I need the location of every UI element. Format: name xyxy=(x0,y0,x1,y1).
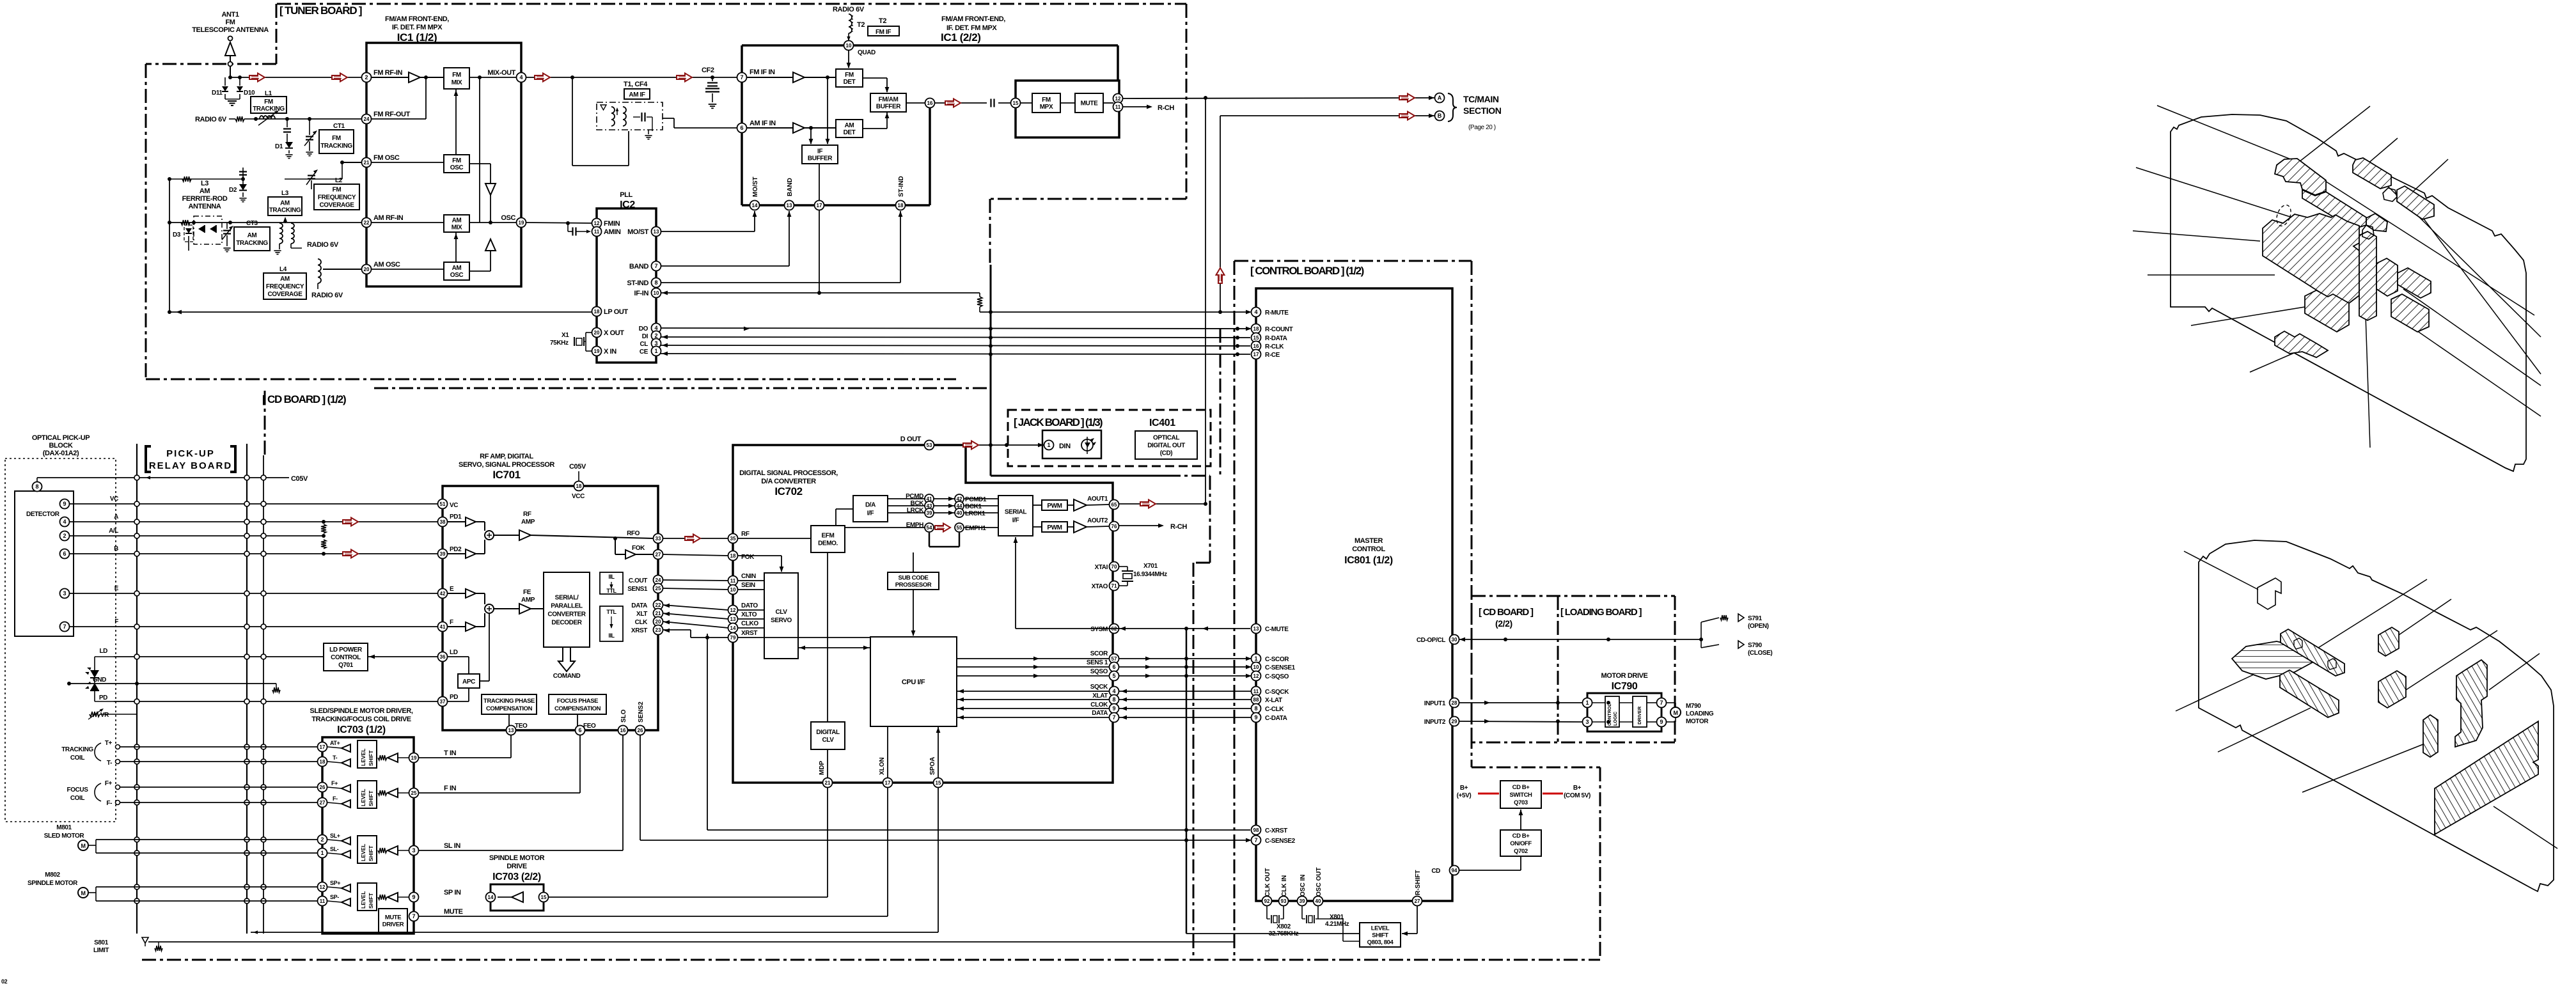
pin 54 EMPH xyxy=(925,523,934,532)
svg-text:8: 8 xyxy=(654,279,657,286)
svg-text:E: E xyxy=(114,585,119,592)
antenna ANT1 label xyxy=(192,11,269,34)
svg-text:13: 13 xyxy=(654,229,659,235)
svg-text:18: 18 xyxy=(898,203,904,208)
page number xyxy=(1,978,8,985)
hatched part u-H right pair xyxy=(2398,268,2431,298)
wire XLAT 2 xyxy=(1119,699,1252,700)
laser diode symbols xyxy=(85,657,114,701)
red wire B+ left xyxy=(1478,793,1499,795)
svg-text:IC790: IC790 xyxy=(1612,681,1638,692)
optical pick-up block label xyxy=(32,434,90,457)
svg-text:MO/ST: MO/ST xyxy=(627,228,649,236)
cd board outline top xyxy=(374,387,990,389)
svg-text:2: 2 xyxy=(320,836,324,843)
svg-text:SHIFT: SHIFT xyxy=(368,790,374,806)
svg-text:7: 7 xyxy=(412,913,415,919)
FM/AM BUFFER box xyxy=(870,93,906,112)
wire FM RF-OUT internal xyxy=(372,77,426,119)
svg-text:X IN: X IN xyxy=(604,348,617,356)
cd board 2/2 + loading board outline xyxy=(1472,596,1675,742)
svg-text:CD B+: CD B+ xyxy=(1512,833,1530,840)
hatched part u-D right bar xyxy=(2397,186,2434,219)
wire R-CH label stub xyxy=(1122,106,1151,107)
wire C-XRST long xyxy=(707,829,1250,831)
wire SYSM xyxy=(1016,628,1119,629)
pin 12 DATO xyxy=(664,602,758,615)
CT1 FM TRACKING label box xyxy=(319,123,354,153)
R-CH label 2 xyxy=(1170,523,1187,531)
arrow DIN xyxy=(1038,443,1044,448)
pin 2 FM RF-IN xyxy=(362,73,372,82)
svg-text:LEVEL: LEVEL xyxy=(1371,925,1390,932)
svg-text:27: 27 xyxy=(1415,898,1420,904)
leader line l5 xyxy=(2489,653,2540,690)
svg-text:ANTENNA: ANTENNA xyxy=(189,203,221,210)
M790 label xyxy=(1686,703,1714,725)
svg-text:RADIO 6V: RADIO 6V xyxy=(307,241,339,249)
svg-text:FM: FM xyxy=(452,157,461,164)
leader line u15 xyxy=(2364,258,2370,448)
red arrow RF xyxy=(685,535,700,543)
junction AOUT1 top xyxy=(1204,96,1207,100)
svg-text:VC: VC xyxy=(110,496,118,503)
tuner board title xyxy=(279,4,362,17)
pin 18 LP OUT xyxy=(592,307,602,317)
red arrow A xyxy=(343,518,358,526)
pin 4 R-MUTE xyxy=(1246,308,1289,317)
svg-text:27: 27 xyxy=(320,800,326,806)
wire EMPH xyxy=(845,527,925,528)
pin 25 SENS1 xyxy=(654,584,663,593)
svg-text:12: 12 xyxy=(594,221,600,226)
wire C-SENSE2 long xyxy=(640,840,1250,841)
pin 29 INPUT2 xyxy=(1424,717,1459,726)
svg-text:TELESCOPIC ANTENNA: TELESCOPIC ANTENNA xyxy=(192,26,269,34)
svg-text:MUTE: MUTE xyxy=(385,914,401,921)
svg-text:Q703: Q703 xyxy=(1514,799,1528,806)
red arrow before CF2 xyxy=(677,74,692,82)
svg-text:LP OUT: LP OUT xyxy=(604,308,628,316)
buffer triangle down xyxy=(485,184,496,195)
svg-text:MIX-OUT: MIX-OUT xyxy=(487,69,515,77)
PWM box 1 xyxy=(1042,500,1067,510)
wire S801 LIMIT xyxy=(148,941,1234,943)
arrow R-CLK xyxy=(662,343,668,348)
svg-text:17: 17 xyxy=(320,744,326,750)
svg-text:76: 76 xyxy=(1111,524,1117,529)
wire SPOA down xyxy=(938,787,939,932)
hatched part u-B mid bar xyxy=(2302,190,2366,229)
svg-text:IF: IF xyxy=(817,148,822,155)
wire SP+ xyxy=(96,886,318,888)
svg-text:25: 25 xyxy=(656,586,661,591)
out triangle 1 xyxy=(1074,499,1087,511)
CPU I/F box xyxy=(870,637,957,726)
L3 AM FERRITE-ROD ANTENNA label xyxy=(182,180,228,210)
svg-text:13: 13 xyxy=(508,728,514,733)
svg-text:X802: X802 xyxy=(1276,923,1291,930)
svg-text:16: 16 xyxy=(620,728,626,733)
pin 12 C-SQSO xyxy=(1246,671,1289,681)
hatched part u-G right mid xyxy=(2376,258,2398,296)
wire DATO xyxy=(663,605,728,610)
pin 15 xyxy=(1011,98,1021,108)
IC2 title xyxy=(620,191,635,210)
svg-text:15: 15 xyxy=(1253,335,1259,341)
IIL TTL box up xyxy=(600,572,623,594)
wire CLOK 2 xyxy=(1119,708,1252,709)
svg-text:RF: RF xyxy=(741,531,750,538)
wire B vertical xyxy=(1220,116,1221,312)
svg-text:BAND: BAND xyxy=(787,178,794,196)
svg-text:15: 15 xyxy=(1013,100,1019,106)
svg-text:C-XRST: C-XRST xyxy=(1265,827,1287,834)
FE AMP label xyxy=(521,589,535,604)
hatched part l-B diamond xyxy=(2232,641,2318,679)
SUB CODE PROSSESOR box xyxy=(888,572,939,590)
svg-text:FM: FM xyxy=(1042,97,1051,104)
svg-text:IC801 (1/2): IC801 (1/2) xyxy=(1344,555,1393,566)
svg-text:M: M xyxy=(81,890,85,896)
svg-text:XTAI: XTAI xyxy=(1095,564,1108,571)
svg-text:D11: D11 xyxy=(212,90,223,97)
jack board outline xyxy=(1008,410,1211,466)
wire FM DET to buffer xyxy=(863,78,887,92)
svg-text:FOCUS: FOCUS xyxy=(67,786,88,794)
CT3 AM TRACKING label box xyxy=(234,220,270,251)
pin 3 CL xyxy=(652,339,661,348)
wire SQCK 2 xyxy=(1119,691,1252,692)
wire serial in xyxy=(964,499,998,528)
C05V label xyxy=(291,475,308,483)
capacitor D2 branch xyxy=(239,162,247,184)
svg-text:7: 7 xyxy=(1660,700,1663,706)
svg-text:38: 38 xyxy=(440,519,446,525)
svg-text:3: 3 xyxy=(1585,719,1589,725)
svg-text:I/F: I/F xyxy=(1012,517,1019,524)
svg-text:DIGITAL OUT: DIGITAL OUT xyxy=(1147,442,1185,450)
crystal X802 xyxy=(1267,905,1299,937)
svg-text:M801: M801 xyxy=(56,824,72,831)
mechanical panel outline (upper) xyxy=(2171,114,2526,471)
svg-text:X1: X1 xyxy=(562,332,569,339)
svg-text:CLV: CLV xyxy=(775,609,787,616)
pin 12 FMIN xyxy=(592,219,602,228)
pin 42 PCMD1 xyxy=(955,494,964,503)
svg-text:94: 94 xyxy=(1452,868,1457,873)
arrows cpu out xyxy=(1033,657,1151,678)
pin 17 xyxy=(815,201,824,210)
pin 21 MDP xyxy=(819,760,833,787)
AM DET box xyxy=(836,120,863,137)
wire IF buffer to pin 17 xyxy=(819,164,820,295)
svg-text:7: 7 xyxy=(740,74,743,81)
wire A xyxy=(69,521,438,522)
DIGITAL CLV box xyxy=(811,722,845,749)
wire PD internal xyxy=(448,688,469,701)
pin 4 SQCK xyxy=(1110,687,1119,696)
svg-text:FOK: FOK xyxy=(741,554,755,561)
svg-text:IC701: IC701 xyxy=(492,469,520,481)
pick-up relay board outline right xyxy=(246,444,247,934)
red arrow before A xyxy=(1399,94,1415,102)
svg-text:(COM 5V): (COM 5V) xyxy=(1564,792,1590,799)
svg-text:DET: DET xyxy=(844,79,856,86)
FM MIX box xyxy=(444,68,469,89)
capacitor CF2 xyxy=(702,67,719,108)
leader line u6 xyxy=(2133,231,2260,241)
svg-text:(CLOSE): (CLOSE) xyxy=(1748,650,1772,657)
pin 94 CD xyxy=(1431,866,1459,875)
svg-text:PD2: PD2 xyxy=(450,546,462,553)
hatched part u-C top-right bar xyxy=(2353,158,2391,189)
pin 6 AM IF IN xyxy=(737,123,747,133)
amp triangle FM IF xyxy=(747,72,836,82)
IC703 right labels xyxy=(444,749,463,916)
svg-text:SUB CODE: SUB CODE xyxy=(899,574,929,581)
svg-text:6: 6 xyxy=(63,551,66,557)
svg-text:DRIVER: DRIVER xyxy=(382,921,404,928)
IC703 input triangles xyxy=(378,753,409,762)
leader line u14 xyxy=(2394,315,2541,416)
M790 LOADING MOTOR xyxy=(1666,703,1681,722)
terminal T- xyxy=(116,760,120,764)
svg-text:65: 65 xyxy=(1111,502,1117,508)
T2 FM IF label box xyxy=(868,17,899,36)
svg-text:27: 27 xyxy=(656,552,661,558)
svg-text:SHIFT: SHIFT xyxy=(368,845,374,861)
FOCUS COIL label xyxy=(67,780,112,807)
resistor on RADIO 6V line xyxy=(229,116,255,121)
svg-text:A: A xyxy=(114,513,118,520)
wire SP- xyxy=(96,900,318,902)
wire F- xyxy=(120,802,318,803)
svg-text:R-CLK: R-CLK xyxy=(1265,343,1284,350)
svg-text:CLK IN: CLK IN xyxy=(1281,875,1288,896)
red arrow on antenna wire 2 xyxy=(332,74,347,82)
svg-text:R-CH: R-CH xyxy=(1158,104,1174,112)
svg-text:15: 15 xyxy=(541,895,547,900)
wire R-SHIFT down xyxy=(1417,905,1418,934)
amp triangle AM IF xyxy=(747,123,836,133)
svg-text:16: 16 xyxy=(927,100,933,106)
wire CNIN xyxy=(663,580,728,581)
svg-text:55: 55 xyxy=(957,525,962,531)
svg-text:26: 26 xyxy=(320,785,326,790)
pin 11 AMIN xyxy=(592,227,602,237)
red arrow before B xyxy=(1399,112,1415,120)
leader line l7 xyxy=(2218,708,2311,752)
pin 1 IC790 xyxy=(1583,698,1592,708)
pin 13b xyxy=(785,201,794,210)
pin 93 CLK IN xyxy=(1279,875,1289,906)
out triangle 2 xyxy=(1074,521,1087,533)
leader line l4 xyxy=(2406,630,2497,690)
pin 8 XLAT xyxy=(1110,695,1119,705)
wire T- xyxy=(120,761,318,762)
svg-text:IIL: IIL xyxy=(608,632,615,639)
svg-text:FERRITE-ROD: FERRITE-ROD xyxy=(182,195,228,203)
arrow Q702 to Q703 xyxy=(1519,810,1523,830)
pin 13 C-MUTE xyxy=(1252,624,1289,634)
svg-text:92: 92 xyxy=(1264,898,1270,904)
svg-text:41: 41 xyxy=(440,624,446,630)
svg-text:TRACKING: TRACKING xyxy=(269,207,301,214)
svg-text:AM: AM xyxy=(452,217,462,224)
pin 43 BCK xyxy=(925,501,934,510)
diode D1 xyxy=(275,142,293,159)
svg-text:9: 9 xyxy=(63,501,66,507)
svg-text:LEVEL: LEVEL xyxy=(360,749,366,766)
svg-text:36: 36 xyxy=(440,654,446,660)
SERIAL PARALLEL CONVERTER DECODER box xyxy=(544,572,590,647)
pin 39 LRCK xyxy=(925,508,934,517)
svg-text:MOTOR DRIVE: MOTOR DRIVE xyxy=(1601,672,1647,680)
arrow IF-IN xyxy=(662,291,668,295)
svg-text:LD POWER: LD POWER xyxy=(329,646,363,653)
wire RF to EFM xyxy=(737,538,811,539)
node A circle xyxy=(1429,93,1445,103)
svg-text:R-CE: R-CE xyxy=(1265,352,1280,359)
svg-text:M790: M790 xyxy=(1686,703,1701,710)
svg-text:T IN: T IN xyxy=(444,749,457,757)
wire C05V xyxy=(37,477,289,478)
small clip u-D2 xyxy=(2383,188,2397,201)
leader line u3 xyxy=(2367,138,2398,164)
pin 70 XTAI xyxy=(1095,562,1119,572)
svg-text:I/F: I/F xyxy=(867,510,874,517)
svg-text:[ CD BOARD ] (1/2): [ CD BOARD ] (1/2) xyxy=(262,393,346,405)
IC IC2 outline xyxy=(597,208,656,363)
svg-text:AMIN: AMIN xyxy=(604,228,621,236)
pin 10 C-SENSE1 xyxy=(1246,662,1296,672)
pin 12 out xyxy=(1113,94,1123,104)
pin 11 C-SQCK xyxy=(1252,687,1290,696)
hatched part l-D lower bar xyxy=(2280,670,2339,717)
svg-text:7: 7 xyxy=(654,263,657,269)
wire MO/ST xyxy=(661,211,755,231)
svg-text:6: 6 xyxy=(740,125,743,131)
svg-text:EMPH1: EMPH1 xyxy=(965,525,986,532)
svg-text:CD: CD xyxy=(1431,868,1440,875)
svg-text:SYSM: SYSM xyxy=(1090,626,1108,633)
FM MPX box xyxy=(1032,93,1060,113)
junction FM RF-OUT xyxy=(254,117,311,121)
junction T1 tap xyxy=(570,75,714,79)
svg-text:CD-OP/CL: CD-OP/CL xyxy=(1417,637,1445,644)
CONTROL LOGIC box xyxy=(1605,696,1619,727)
svg-text:X OUT: X OUT xyxy=(604,329,624,337)
svg-text:BAND: BAND xyxy=(629,263,649,270)
wire R-DATA xyxy=(661,337,1250,338)
wire to IF buffer 1 xyxy=(810,128,812,144)
svg-text:X-LAT: X-LAT xyxy=(1265,697,1282,704)
TTL IIL box down xyxy=(600,606,623,641)
leader line l8 xyxy=(2302,744,2423,792)
junction D OUT xyxy=(989,443,1009,447)
APC box xyxy=(458,674,480,688)
resistor A/L to B xyxy=(321,540,326,556)
IC703 2/2 title xyxy=(489,854,545,882)
trimmer CT1 xyxy=(304,119,317,156)
svg-text:ST-IND: ST-IND xyxy=(627,279,648,287)
pin 7 BAND xyxy=(652,262,661,271)
svg-text:RELAY BOARD: RELAY BOARD xyxy=(149,460,232,471)
svg-text:2: 2 xyxy=(365,74,368,81)
pin 11 out xyxy=(1113,102,1123,112)
svg-text:26: 26 xyxy=(638,728,643,733)
svg-text:RADIO 6V: RADIO 6V xyxy=(833,6,865,13)
svg-text:SENS1: SENS1 xyxy=(627,586,648,593)
coil L4 xyxy=(318,259,323,289)
wire LD xyxy=(114,656,324,657)
svg-text:3: 3 xyxy=(412,847,415,854)
pin 15 xyxy=(539,893,549,902)
svg-text:(+5V): (+5V) xyxy=(1457,792,1472,799)
svg-text:D/A CONVERTER: D/A CONVERTER xyxy=(761,478,816,485)
svg-text:SP+: SP+ xyxy=(330,880,340,886)
svg-text:D1: D1 xyxy=(275,143,283,150)
svg-text:C-SENSE1: C-SENSE1 xyxy=(1265,664,1296,671)
svg-text:COIL: COIL xyxy=(70,795,85,802)
svg-text:CL: CL xyxy=(640,341,648,348)
svg-text:C-SENSE2: C-SENSE2 xyxy=(1265,838,1296,845)
svg-text:F: F xyxy=(450,619,453,626)
svg-text:SERIAL/: SERIAL/ xyxy=(555,595,579,602)
svg-text:DECODER: DECODER xyxy=(551,620,582,627)
svg-text:SQSO: SQSO xyxy=(1090,668,1108,675)
svg-text:AM OSC: AM OSC xyxy=(373,261,400,269)
svg-text:LEVEL: LEVEL xyxy=(360,891,366,909)
RF AMP label xyxy=(521,511,535,526)
svg-text:18: 18 xyxy=(576,483,582,489)
svg-text:COIL: COIL xyxy=(70,755,85,762)
svg-text:SHIFT: SHIFT xyxy=(368,893,374,909)
svg-text:IC1 (1/2): IC1 (1/2) xyxy=(397,31,437,43)
wire B horizontal xyxy=(1220,115,1434,116)
svg-text:TRACKING: TRACKING xyxy=(253,106,285,113)
pin 36 LD xyxy=(438,652,448,662)
RF AMP triangle xyxy=(494,530,654,540)
leader line l2 xyxy=(2318,579,2427,648)
svg-text:LRCK1: LRCK1 xyxy=(965,510,986,517)
pin 20 X OUT xyxy=(592,328,602,338)
svg-text:16.9344MHz: 16.9344MHz xyxy=(1133,571,1167,578)
wire RF xyxy=(663,538,728,539)
wire XLON down xyxy=(887,787,888,916)
wire T+ xyxy=(120,746,318,747)
svg-text:8: 8 xyxy=(1254,705,1257,712)
svg-text:(2/2): (2/2) xyxy=(1495,618,1512,629)
pin 9 VC xyxy=(60,499,70,509)
svg-text:AMP: AMP xyxy=(521,597,535,604)
arrow ST-IND xyxy=(899,211,903,217)
tuner board outline left xyxy=(146,4,276,379)
svg-text:25: 25 xyxy=(411,790,417,796)
svg-text:IF. DET. FM MPX: IF. DET. FM MPX xyxy=(392,24,443,31)
svg-text:B+: B+ xyxy=(1573,785,1582,792)
wire bus to level shift xyxy=(1186,933,1360,934)
B+ labels xyxy=(1457,785,1590,799)
svg-text:20: 20 xyxy=(656,619,661,625)
jack board title xyxy=(1014,416,1103,428)
junction IF buffer feeds xyxy=(809,75,829,130)
wire SENS1 2 xyxy=(1119,666,1252,668)
wire FOK 2 xyxy=(663,554,728,556)
svg-text:D2: D2 xyxy=(229,187,237,194)
IC IC790 outline xyxy=(1587,693,1661,732)
